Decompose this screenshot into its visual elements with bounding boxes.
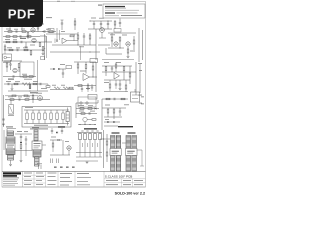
ground tower1 [9, 165, 12, 166]
wire right rail 3 [135, 62, 137, 95]
wire cluster top [4, 60, 22, 62]
title block bottom rule [2, 186, 146, 188]
notes box SOLDANO bold text [105, 12, 115, 13]
wire bus F [50, 89, 74, 91]
label box right stage [114, 29, 121, 33]
label bus G [8, 93, 42, 98]
standby marks [51, 159, 59, 164]
power tubes V7-V11 [79, 133, 102, 153]
notes box title text [105, 6, 126, 8]
resistor R64 [86, 87, 90, 90]
resistor R15 stack [89, 33, 91, 53]
logo company name row2 [3, 175, 17, 177]
title block divider 2 [57, 172, 59, 188]
jack J2 circle [80, 102, 82, 104]
wire tower1 top corner [7, 129, 16, 132]
wire T1 T2 link [122, 142, 126, 144]
capacitor C26 tall [66, 108, 69, 126]
capacitor C13 [111, 66, 113, 72]
capacitor C32 [100, 21, 102, 29]
wire bus crossover [98, 44, 110, 46]
relay box K1 [88, 95, 97, 100]
resistor R20 cathode [127, 47, 130, 58]
logo company name [3, 172, 21, 174]
resistor R21 [133, 36, 135, 50]
wire bus E2 [8, 90, 48, 91]
resistor R66 [109, 80, 111, 91]
wire top-mid bus upper [89, 20, 112, 21]
wire bus I [102, 99, 126, 130]
top margin tick text [57, 0, 75, 3]
wire PI top [74, 61, 96, 63]
wire bus K [104, 122, 120, 126]
diode D6 [56, 132, 58, 134]
net labels right column [141, 96, 144, 104]
wire power tubes bottom [76, 161, 98, 163]
filter cap bank enclosure [22, 107, 71, 128]
label under bank [30, 128, 48, 129]
resistor R23 [18, 64, 20, 73]
tube V2B [114, 42, 118, 46]
wire cathode rail 2 [76, 156, 102, 158]
diode D4 [107, 121, 109, 123]
wire relay low [76, 113, 97, 115]
resistor R22 [6, 63, 8, 72]
relay box K3 [90, 59, 98, 63]
resistor R59 left of T1 [106, 134, 108, 162]
wire left rail [3, 95, 5, 127]
wire riser 2 [20, 25, 24, 31]
small tube V2A below notes [99, 28, 106, 38]
label relay [78, 105, 95, 111]
label row A values [6, 28, 51, 31]
resistor R36 zig [54, 87, 60, 89]
label pot VR2 [8, 114, 14, 117]
grid resistors legs [83, 143, 98, 147]
wire bus J [104, 116, 122, 118]
wire riser 1 [8, 25, 12, 31]
wire relay loop top [76, 100, 98, 103]
schematic page outer border [2, 2, 146, 188]
label mid cluster [70, 35, 84, 48]
notes box line 4 left text [105, 14, 119, 17]
capacitor C39 [91, 84, 93, 91]
transformer T3 tail striped [35, 157, 40, 166]
PDF badge text [8, 7, 36, 22]
capacitor C3 [21, 41, 22, 43]
label right cluster [104, 62, 121, 83]
label top-mid [61, 18, 104, 32]
resistor R70 [46, 84, 50, 87]
capacitor C18 [114, 98, 115, 100]
PDF badge [0, 0, 43, 27]
capacitor C9 [13, 75, 14, 77]
resistor R1 [8, 31, 12, 33]
tube V1A [31, 28, 35, 32]
filter capacitors C20-C25 bank [26, 110, 64, 124]
wire input bus A [4, 31, 56, 33]
cell 5 grid [104, 179, 146, 187]
wire stage link top [108, 32, 136, 34]
capacitor C1 [16, 30, 17, 32]
resistor R63 [27, 36, 31, 38]
wire tower1 stem [10, 160, 12, 164]
capacitor C14 [119, 80, 122, 90]
net label right margin [138, 63, 142, 104]
resistor R67 [125, 80, 127, 92]
resistor R43 [32, 95, 34, 103]
resistor R41 [10, 99, 14, 101]
wire vertical divider left [37, 60, 39, 91]
resistor R54 [52, 140, 54, 152]
wire screen rail [77, 132, 102, 134]
label driver [51, 137, 69, 142]
capacitor C37 [81, 86, 83, 93]
wire relay loop rect [78, 97, 96, 107]
wire PI out [90, 76, 98, 77]
ground between towers [20, 161, 23, 162]
wire PI low [74, 62, 96, 92]
standby switch marks [37, 163, 42, 169]
resistor R3 grid [27, 33, 29, 40]
capacitor C8 [9, 60, 11, 70]
wire bus E [4, 83, 48, 85]
resistor R48 [106, 98, 110, 100]
wire right rail 2 [142, 30, 144, 60]
label bus E [6, 81, 47, 89]
resistor R12 vert [30, 51, 32, 57]
notes box frame [103, 4, 145, 18]
capacitor C11 [40, 83, 41, 85]
resistor R6 [6, 41, 10, 43]
svg-text:PDF: PDF [8, 7, 36, 22]
capacitor C5 [55, 39, 58, 44]
capacitor C12 [62, 69, 64, 78]
wire V1 plate up [33, 24, 44, 27]
resistor R28 [33, 83, 37, 85]
resistor R10 [9, 49, 13, 51]
label dark value 1 [20, 38, 26, 39]
tube V1B [32, 38, 36, 42]
resistor R2 [22, 31, 26, 33]
wire channel divider [45, 34, 47, 60]
diode D2 [58, 68, 60, 70]
capacitor C31 [93, 21, 95, 29]
capacitor C6 stack [83, 33, 85, 45]
resistor R40 [129, 66, 131, 84]
wire cap bank bottom bus [24, 123, 69, 125]
op-amp U3 triangle [114, 73, 120, 80]
wire bus R2 [102, 71, 136, 73]
label above row A [8, 25, 25, 26]
center cell text rows [48, 173, 57, 185]
resistor R18 plate [111, 33, 113, 47]
capacitor C16 left [2, 119, 5, 125]
resistor R72 [87, 83, 89, 92]
resistor R44 [80, 108, 84, 110]
capacitor C35 [61, 128, 63, 134]
label row C [7, 46, 28, 49]
label tower1 top [6, 126, 13, 127]
wire top-mid bus lower [88, 28, 112, 30]
label row B [5, 39, 35, 45]
choke L2 tail striped [8, 155, 14, 161]
wire to OT [100, 130, 110, 168]
wire relay bottom dots [78, 124, 96, 125]
potentiometer VR1 gain [42, 47, 46, 55]
label xfmr T1 [112, 132, 120, 133]
label dark value 2 [30, 92, 38, 93]
revision table grid [23, 172, 46, 188]
label power section [118, 126, 133, 127]
tube V3B [13, 68, 17, 72]
op-amp U2 phase inverter [83, 74, 90, 81]
label PI [52, 64, 86, 86]
op-amp buffer U1 triangle [62, 38, 78, 44]
resistor R35 [78, 85, 82, 87]
wire right rail 1 [138, 28, 140, 62]
capacitor C33 [107, 21, 109, 29]
tube V4A [38, 96, 43, 101]
wire diode link [50, 68, 66, 70]
transistor Q1 [83, 117, 87, 124]
diode D5 [113, 121, 115, 123]
wire driver low [50, 154, 70, 156]
resistor R24 [23, 76, 27, 78]
wire bus lower [50, 51, 100, 53]
wire bus R4 [104, 91, 128, 93]
wire towers link mid [15, 150, 32, 152]
label bus D [8, 74, 32, 80]
resistor R13 feedback [70, 35, 74, 41]
wire FX send bus [52, 44, 96, 46]
logo address lines [3, 179, 18, 185]
wire T2 right [137, 150, 145, 166]
notes box line 2 text [105, 9, 139, 12]
resistor R17 [114, 21, 116, 29]
wire right rail 4 [139, 64, 141, 93]
capacitor C29 column [25, 136, 27, 156]
title block divider 4 [103, 172, 105, 188]
resistor R38 [105, 67, 107, 77]
power tube cathode legs [80, 153, 100, 158]
notes box line 3 text [117, 12, 138, 15]
wire left rail bottom [3, 130, 5, 150]
power transformer T2 [126, 136, 138, 172]
resistor R37 zig [63, 87, 69, 89]
resistor R62 [13, 36, 17, 38]
wire cathode rail 1 [76, 152, 102, 154]
transformer T3 striped stem [34, 130, 38, 141]
capacitor C2 [42, 30, 45, 32]
title main text CLASS [105, 174, 133, 178]
resistor R69 [24, 95, 28, 97]
resistor R51 [113, 109, 115, 119]
wire vertical pair mid [57, 28, 60, 40]
resistor R5 [49, 31, 53, 33]
resistor R29 drop [11, 84, 14, 90]
cell 5 text [106, 180, 143, 185]
output transformer T1 [110, 136, 121, 172]
resistor R73 left col [4, 44, 6, 54]
resistor R49 [121, 98, 125, 100]
wire bus C [4, 49, 44, 51]
resistor R30 drop [29, 84, 31, 89]
presence pot VR2 [9, 100, 14, 114]
mains plug symbols [54, 166, 75, 168]
resistor R50 [107, 109, 109, 117]
resistor R8 to gnd [25, 42, 28, 48]
transformer T3 label window [32, 141, 42, 150]
screen resistors R55-R58 [81, 130, 98, 133]
wire bus A2 [3, 36, 40, 38]
resistor R7 [13, 41, 17, 43]
tube V6A driver [67, 146, 71, 155]
resistor R31 box [66, 66, 72, 69]
resistor R11 [24, 49, 28, 51]
tube V3A [126, 42, 130, 46]
resistor R25 [29, 76, 33, 78]
wire towers link top [15, 133, 32, 135]
resistor R46 [81, 113, 85, 115]
capacitor C4 [17, 49, 18, 51]
label input jack [3, 61, 10, 64]
resistor R71 [69, 87, 73, 89]
label output tubes dark [84, 128, 97, 129]
capacitor C27 small striped [7, 131, 14, 136]
label tower2 top [32, 127, 39, 128]
capacitor C38 [115, 80, 117, 89]
svg-text:S.CLASS 100* PCB: S.CLASS 100* PCB [105, 174, 133, 178]
transformer T3 lower hatch [33, 150, 41, 157]
wire bus D [3, 76, 36, 78]
footer version text [115, 192, 145, 196]
wire bus H [102, 98, 128, 100]
label right col small [105, 104, 129, 119]
resistor R47 [87, 119, 96, 121]
label right stage [110, 34, 135, 51]
capacitor C28a between towers [20, 134, 22, 141]
resistor R61 [6, 36, 10, 38]
capacitor C7 [119, 19, 121, 28]
cell 3 text [60, 173, 72, 185]
logo tagline [3, 176, 19, 179]
jack J3 circle [86, 102, 88, 104]
diode D1 [53, 68, 55, 70]
wire stage link low [106, 48, 122, 54]
resistor R9 [39, 43, 41, 47]
resistor R14 stack [77, 32, 79, 46]
resistor R42 [25, 99, 29, 101]
capacitor C17 [89, 112, 90, 114]
resistor R45 [88, 108, 92, 110]
resistor R19 plate [119, 37, 121, 48]
revision table text [24, 173, 44, 185]
resistor R65 [115, 62, 117, 72]
capacitor C36 [20, 35, 21, 37]
wire drop 2 [80, 46, 82, 60]
wire right drop [95, 29, 97, 60]
wire driver mid [50, 140, 63, 155]
wire stage link mid [108, 47, 124, 48]
capacitor C30 vertical [61, 20, 64, 30]
choke L2 upper hatch [6, 137, 15, 143]
page background [0, 0, 149, 198]
junction dark dot [20, 142, 22, 144]
resistor R52 between towers [20, 145, 22, 161]
wire relay mid [76, 103, 99, 118]
resistor R39 [123, 67, 125, 81]
wire bus B [3, 41, 52, 43]
diode D3 [95, 108, 97, 110]
label xfmr T2 [128, 132, 136, 133]
input jack J1 box [3, 54, 12, 61]
resistor R68 [12, 95, 16, 97]
relay box K2 [131, 89, 140, 102]
wire right top bus [102, 59, 134, 61]
wire bus G0 [5, 95, 38, 97]
resistor R34 stack [92, 62, 94, 77]
resistor R27 zigzag [22, 83, 30, 86]
diode D7 [58, 139, 60, 141]
wire T3 right [42, 144, 46, 146]
wire FX top bus [46, 33, 78, 35]
label bias dark [58, 126, 65, 127]
title block divider 3 [74, 172, 76, 188]
notes box line 4 dark text [121, 14, 142, 17]
resistor R60 vertical [74, 18, 76, 30]
title cell 4 text [77, 173, 91, 185]
resistor R32 stack [77, 62, 79, 74]
wire bus G [5, 99, 50, 101]
choke L2 label window [6, 143, 15, 149]
resistor R33 stack [85, 62, 87, 74]
svg-text:SOLD-100 ver 2.2: SOLD-100 ver 2.2 [115, 192, 145, 196]
title block divider 1 [22, 172, 24, 188]
resistor R4 plate [37, 25, 39, 32]
input jack J1 symbol [4, 56, 11, 59]
wire loop rect left-mid [20, 62, 34, 77]
wire B right [40, 36, 46, 42]
capacitor C15 [19, 98, 20, 100]
resistor R26 [14, 83, 18, 85]
wire cap bank top bus [24, 109, 69, 111]
title block top rule [2, 170, 146, 172]
label towers small [17, 131, 28, 132]
top margin right text [98, 5, 102, 6]
capacitor C19 [119, 108, 121, 116]
wire bus R3 [104, 79, 130, 81]
choke L2 lower hatch [6, 149, 15, 155]
label right of badge [46, 17, 54, 32]
capacitor C10 [8, 83, 9, 85]
small box pair [41, 57, 45, 60]
wire bus R1 [102, 65, 132, 67]
label cap bank [25, 107, 48, 126]
capacitor C34 [51, 128, 53, 134]
